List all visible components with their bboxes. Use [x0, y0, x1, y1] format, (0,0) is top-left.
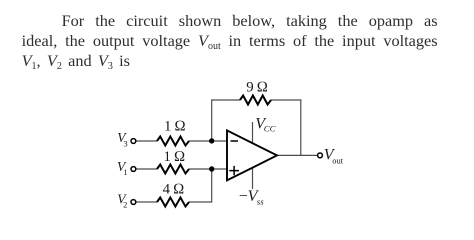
terminal circle V2 [131, 200, 136, 205]
svg-text:CC: CC [264, 124, 276, 134]
wire V1 resistor to opamp plus input [189, 168, 227, 170]
svg-text:out: out [332, 156, 344, 166]
wire V3 terminal to resistor [136, 140, 157, 142]
svg-text:−: − [239, 188, 248, 205]
svg-text:1 Ω: 1 Ω [164, 118, 186, 134]
wire feedback top right segment [271, 99, 301, 101]
resistor 1ohm (V1 branch) [157, 165, 189, 174]
svg-text:2: 2 [123, 200, 127, 210]
svg-text:3: 3 [123, 139, 127, 149]
resistor 1ohm (V3 branch) [157, 137, 189, 146]
wire V3 resistor to opamp minus input [189, 140, 227, 142]
resistor 4ohm (V2 branch) [157, 198, 189, 207]
op-amp plus input sign [229, 166, 239, 175]
wire feedback right vertical down to output [300, 99, 302, 155]
resistor 9ohm (feedback) [240, 96, 271, 105]
wire feedback left vertical from minus node [211, 100, 213, 141]
op-amp minus input sign [231, 140, 239, 142]
wire V1 terminal to resistor [136, 168, 157, 170]
wire V2 resistor right then up to plus node [189, 169, 212, 202]
wire feedback top left segment [211, 99, 240, 101]
svg-text:4 Ω: 4 Ω [163, 182, 185, 198]
terminal circle Vout [318, 153, 323, 158]
svg-text:1 Ω: 1 Ω [164, 149, 186, 165]
svg-text:ss: ss [257, 196, 264, 206]
terminal circle V3 [131, 139, 136, 144]
junction dot plus node [209, 166, 214, 171]
junction dot minus node [209, 138, 214, 143]
svg-text:1: 1 [123, 167, 127, 177]
wire Vcc supply stub [252, 122, 254, 144]
wire -Vss supply stub [252, 168, 254, 190]
wire output from opamp apex to terminal [277, 154, 318, 156]
terminal circle V1 [131, 167, 136, 172]
wire V2 terminal to resistor [136, 201, 157, 203]
op-amp U1 triangle [227, 130, 277, 180]
svg-text:9 Ω: 9 Ω [246, 80, 268, 96]
